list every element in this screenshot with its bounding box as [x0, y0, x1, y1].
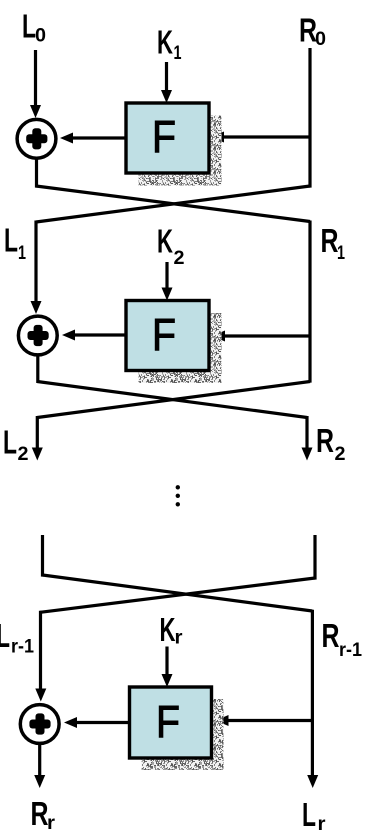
svg-text:R: R — [322, 617, 340, 654]
svg-text:K: K — [157, 24, 173, 61]
F box U1 shadow — [139, 116, 222, 186]
wire cross1 left-to-right — [36, 186, 310, 222]
wire R2 output arrow — [305, 416, 308, 449]
svg-text:0: 0 — [35, 26, 46, 47]
svg-text:L: L — [22, 8, 36, 45]
wire F1 output to XOR1 — [72, 136, 126, 139]
svg-text:r-1: r-1 — [339, 640, 362, 661]
svg-text:L: L — [0, 617, 10, 654]
wire R0 down right side — [308, 48, 311, 188]
wire Kr down to F3 — [165, 647, 168, 676]
wire cross2 right-to-left — [37, 382, 310, 418]
wire L2 output arrow — [36, 416, 39, 449]
wire L0 down to XOR1 — [34, 50, 37, 106]
svg-text:2: 2 — [18, 444, 29, 465]
svg-text:r-1: r-1 — [11, 637, 34, 658]
svg-text:L: L — [302, 796, 316, 833]
svg-text:0: 0 — [315, 29, 326, 50]
svg-text:r: r — [318, 814, 327, 835]
svg-text:1: 1 — [337, 243, 345, 264]
svg-text:R: R — [31, 795, 49, 832]
svg-text:F: F — [152, 309, 176, 360]
svg-text:2: 2 — [174, 248, 185, 269]
svg-text:1: 1 — [18, 243, 26, 264]
wire K2 down to F2 — [165, 262, 168, 289]
svg-text:K: K — [157, 223, 173, 260]
wire XOR3 down output Rr — [38, 744, 41, 777]
wire cross3 left-to-right — [43, 575, 313, 611]
wire Rr-1 down right side — [311, 610, 314, 776]
F box U1 — [126, 103, 209, 173]
svg-text:r: r — [175, 628, 184, 649]
svg-text:1: 1 — [174, 43, 182, 64]
wire K1 down to F1 — [165, 62, 168, 91]
svg-text:L: L — [4, 222, 18, 259]
wire XOR2 down — [36, 355, 39, 383]
ellipsis dots — [176, 485, 180, 489]
wire Lr-1 down to XOR3 — [39, 611, 42, 690]
wire R0 branch to F1 input — [223, 135, 310, 138]
XOR2 circle — [18, 316, 57, 355]
svg-text:r: r — [47, 813, 56, 834]
wire L1 down to XOR2 — [34, 221, 37, 303]
svg-text:R: R — [321, 222, 339, 259]
svg-text:L: L — [3, 424, 17, 461]
svg-text:R: R — [316, 422, 334, 459]
wire F2 output to XOR2 — [74, 333, 126, 336]
wire cross3 right-to-left — [40, 578, 315, 612]
F box U3 — [130, 687, 212, 758]
F box U2 shadow — [139, 313, 222, 383]
F box U2 — [126, 301, 209, 371]
wire Rr-1 branch to F3 input — [228, 719, 313, 722]
XOR1 circle — [17, 119, 56, 158]
wire cross2 left-to-right — [37, 382, 307, 418]
svg-text:F: F — [152, 111, 176, 162]
F box U3 shadow — [142, 699, 224, 770]
wire cross1 right-to-left — [36, 186, 310, 222]
wire stub right top of last round — [313, 535, 316, 580]
wire stub left top of last round — [41, 535, 44, 577]
wire XOR1 down — [35, 158, 38, 188]
wire R1 down right side — [308, 221, 311, 383]
wire F3 output to XOR3 — [76, 721, 130, 724]
svg-text:2: 2 — [335, 444, 346, 465]
svg-text:K: K — [160, 611, 176, 648]
XOR3 circle — [20, 705, 59, 744]
wire R1 branch to F2 input — [224, 334, 310, 337]
svg-text:F: F — [156, 696, 180, 747]
